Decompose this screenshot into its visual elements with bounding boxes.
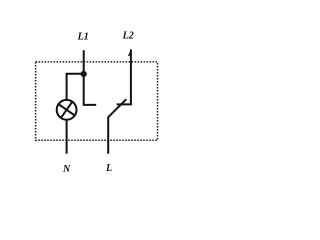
svg-text:L: L	[105, 163, 112, 174]
svg-text:N: N	[62, 164, 71, 175]
svg-text:L1: L1	[77, 31, 89, 42]
svg-text:L2: L2	[122, 31, 134, 42]
